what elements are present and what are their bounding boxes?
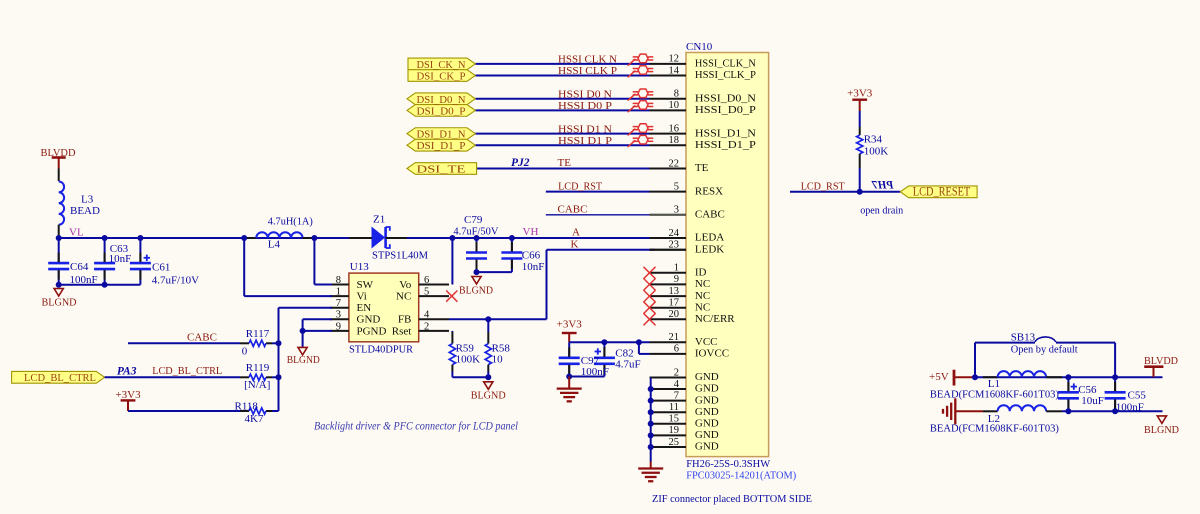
svg-text:FPC03025-14201(ATOM): FPC03025-14201(ATOM) xyxy=(686,470,796,482)
svg-text:BEAD: BEAD xyxy=(70,205,100,217)
svg-text:8: 8 xyxy=(674,89,679,100)
svg-text:HSSI_CLK_P: HSSI_CLK_P xyxy=(695,69,756,81)
svg-text:10nF: 10nF xyxy=(109,253,132,265)
svg-text:HSSI_D1_N: HSSI_D1_N xyxy=(695,127,756,139)
svg-text:STLD40DPUR: STLD40DPUR xyxy=(349,344,414,356)
svg-text:R34: R34 xyxy=(864,134,883,146)
svg-text:SW: SW xyxy=(357,279,374,291)
svg-text:TE: TE xyxy=(558,157,572,169)
svg-text:5: 5 xyxy=(424,287,429,298)
svg-text:+3V3: +3V3 xyxy=(847,87,873,99)
svg-text:BLGND: BLGND xyxy=(1144,424,1179,436)
svg-text:NC: NC xyxy=(695,278,710,290)
svg-text:3: 3 xyxy=(336,310,341,321)
svg-text:Open by default: Open by default xyxy=(1011,343,1078,355)
svg-text:VH: VH xyxy=(523,226,539,238)
svg-text:HSSI_D1_P: HSSI_D1_P xyxy=(695,139,756,151)
svg-text:FB: FB xyxy=(398,314,411,326)
svg-text:15: 15 xyxy=(669,414,680,425)
svg-text:NC: NC xyxy=(695,290,710,302)
svg-text:EN: EN xyxy=(357,302,372,314)
svg-text:20: 20 xyxy=(669,309,680,320)
svg-text:17: 17 xyxy=(669,298,680,309)
svg-text:GND: GND xyxy=(357,314,381,326)
svg-text:1: 1 xyxy=(336,287,341,298)
svg-text:9: 9 xyxy=(674,274,679,285)
svg-text:4.7uF/10V: 4.7uF/10V xyxy=(152,275,199,287)
svg-text:HSSI D1 P: HSSI D1 P xyxy=(558,135,612,147)
svg-text:25: 25 xyxy=(669,437,680,448)
svg-text:BLGND: BLGND xyxy=(42,296,77,308)
svg-text:NC: NC xyxy=(396,291,411,303)
svg-text:CABC: CABC xyxy=(558,204,588,216)
svg-text:DSI_CK_N: DSI_CK_N xyxy=(417,59,466,71)
svg-text:10: 10 xyxy=(669,100,680,111)
svg-text:R119: R119 xyxy=(246,362,270,374)
svg-text:C61: C61 xyxy=(152,262,170,274)
svg-text:Z1: Z1 xyxy=(373,213,385,225)
svg-text:100K: 100K xyxy=(456,354,481,366)
svg-text:13: 13 xyxy=(669,286,680,297)
svg-text:10uF: 10uF xyxy=(1081,395,1104,407)
svg-text:DSI_CK_P: DSI_CK_P xyxy=(417,71,466,83)
svg-text:HSSI_D0_P: HSSI_D0_P xyxy=(695,104,756,116)
svg-text:LCD_BL_CTRL: LCD_BL_CTRL xyxy=(152,365,222,377)
svg-text:LCD_BL_CTRL: LCD_BL_CTRL xyxy=(24,373,96,384)
svg-text:DSI_D0_N: DSI_D0_N xyxy=(417,94,466,106)
svg-text:DSI_D1_P: DSI_D1_P xyxy=(417,140,466,152)
svg-text:LCD_RESET: LCD_RESET xyxy=(913,185,971,199)
svg-text:GND: GND xyxy=(695,429,719,441)
svg-text:GND: GND xyxy=(695,406,719,418)
svg-text:C64: C64 xyxy=(70,261,89,273)
svg-text:9: 9 xyxy=(336,321,341,332)
svg-text:STPS1L40M: STPS1L40M xyxy=(372,250,428,262)
svg-text:R118: R118 xyxy=(235,400,259,412)
svg-text:22: 22 xyxy=(669,158,680,169)
svg-text:TE: TE xyxy=(695,162,709,174)
svg-text:SB13: SB13 xyxy=(1011,331,1036,343)
svg-text:7: 7 xyxy=(674,390,679,401)
svg-text:DSI_TE: DSI_TE xyxy=(417,164,466,176)
svg-text:4: 4 xyxy=(424,310,430,321)
svg-text:R117: R117 xyxy=(246,328,270,340)
svg-text:7: 7 xyxy=(336,298,341,309)
svg-text:19: 19 xyxy=(669,425,680,436)
svg-text:VCC: VCC xyxy=(695,336,718,348)
svg-text:4: 4 xyxy=(674,379,680,390)
svg-text:open drain: open drain xyxy=(860,205,903,217)
svg-text:16: 16 xyxy=(669,123,680,134)
svg-text:BEAD(FCM1608KF-601T03): BEAD(FCM1608KF-601T03) xyxy=(930,388,1059,400)
svg-text:ID: ID xyxy=(695,267,707,279)
svg-text:BLVDD: BLVDD xyxy=(1144,355,1178,367)
svg-text:3: 3 xyxy=(674,205,679,216)
svg-text:PJ2: PJ2 xyxy=(511,157,530,169)
svg-text:PH7: PH7 xyxy=(871,180,894,192)
svg-text:18: 18 xyxy=(669,135,680,146)
svg-text:BLGND: BLGND xyxy=(471,390,506,402)
svg-text:CABC: CABC xyxy=(695,209,725,221)
svg-text:GND: GND xyxy=(695,394,719,406)
svg-text:PGND: PGND xyxy=(357,325,387,337)
svg-text:LCD_RST: LCD_RST xyxy=(801,180,845,192)
svg-text:4K7: 4K7 xyxy=(245,413,264,425)
svg-text:DSI_D1_N: DSI_D1_N xyxy=(417,129,466,141)
svg-text:L3: L3 xyxy=(81,194,94,206)
svg-text:4.7uF: 4.7uF xyxy=(615,359,640,371)
svg-text:4.7uF/50V: 4.7uF/50V xyxy=(453,225,498,237)
svg-text:C66: C66 xyxy=(522,250,541,262)
svg-text:HSSI D0 N: HSSI D0 N xyxy=(558,89,612,101)
svg-text:NC/ERR: NC/ERR xyxy=(695,313,735,325)
svg-text:BLGND: BLGND xyxy=(287,354,320,366)
svg-text:A: A xyxy=(572,227,580,239)
svg-text:LEDK: LEDK xyxy=(695,244,724,256)
svg-text:6: 6 xyxy=(424,275,429,286)
svg-text:GND: GND xyxy=(695,418,719,430)
svg-text:Backlight driver & PFC connect: Backlight driver & PFC connector for LCD… xyxy=(314,421,518,433)
svg-text:12: 12 xyxy=(669,54,680,65)
svg-text:Vo: Vo xyxy=(399,279,412,291)
svg-text:L4: L4 xyxy=(268,238,281,250)
svg-text:HSSI D1 N: HSSI D1 N xyxy=(558,123,612,135)
svg-text:PA3: PA3 xyxy=(117,366,137,378)
svg-text:21: 21 xyxy=(669,332,680,343)
svg-text:ZIF connector placed BOTTOM SI: ZIF connector placed BOTTOM SIDE xyxy=(652,493,812,505)
svg-text:HSSI CLK N: HSSI CLK N xyxy=(558,54,617,66)
svg-text:CN10: CN10 xyxy=(686,41,713,53)
svg-text:8: 8 xyxy=(336,275,341,286)
svg-text:[N/A]: [N/A] xyxy=(244,379,270,391)
svg-text:+5V: +5V xyxy=(929,371,949,383)
svg-text:LCD_RST: LCD_RST xyxy=(558,180,602,192)
svg-text:14: 14 xyxy=(669,65,680,76)
svg-text:Rset: Rset xyxy=(392,325,412,337)
svg-text:RESX: RESX xyxy=(695,185,723,197)
svg-text:HSSI_D0_N: HSSI_D0_N xyxy=(695,93,756,105)
svg-text:10nF: 10nF xyxy=(522,261,545,273)
svg-text:10: 10 xyxy=(492,354,504,366)
svg-text:GND: GND xyxy=(695,383,719,395)
svg-text:HSSI D0 P: HSSI D0 P xyxy=(558,100,612,112)
svg-text:+3V3: +3V3 xyxy=(557,319,583,331)
svg-text:0: 0 xyxy=(242,346,248,358)
svg-text:BEAD(FCM1608KF-601T03): BEAD(FCM1608KF-601T03) xyxy=(930,422,1059,434)
svg-text:NC: NC xyxy=(695,301,710,313)
svg-text:IOVCC: IOVCC xyxy=(695,348,729,360)
svg-text:1: 1 xyxy=(674,263,679,274)
svg-text:LEDA: LEDA xyxy=(695,232,724,244)
svg-text:CABC: CABC xyxy=(187,332,217,344)
svg-text:100nF: 100nF xyxy=(70,274,98,286)
svg-text:BLGND: BLGND xyxy=(459,284,493,296)
svg-text:VL: VL xyxy=(69,227,84,239)
svg-text:GND: GND xyxy=(695,441,719,453)
svg-text:11: 11 xyxy=(669,402,679,413)
svg-text:C56: C56 xyxy=(1078,384,1097,396)
svg-text:DSI_D0_P: DSI_D0_P xyxy=(417,105,466,117)
svg-text:5: 5 xyxy=(674,181,679,192)
svg-text:GND: GND xyxy=(695,371,719,383)
svg-text:4.7uH(1A): 4.7uH(1A) xyxy=(268,216,313,228)
svg-text:C79: C79 xyxy=(464,214,483,226)
svg-text:100K: 100K xyxy=(864,145,889,157)
svg-text:2: 2 xyxy=(424,321,429,332)
svg-text:2: 2 xyxy=(674,367,679,378)
svg-text:U13: U13 xyxy=(350,261,369,273)
svg-text:FH26-25S-0.3SHW: FH26-25S-0.3SHW xyxy=(686,458,771,470)
svg-text:HSSI CLK P: HSSI CLK P xyxy=(558,65,617,77)
svg-text:C55: C55 xyxy=(1128,390,1147,402)
svg-text:HSSI_CLK_N: HSSI_CLK_N xyxy=(695,58,756,70)
svg-text:100nF: 100nF xyxy=(581,366,609,378)
svg-text:Vi: Vi xyxy=(357,291,367,303)
svg-text:6: 6 xyxy=(674,344,679,355)
